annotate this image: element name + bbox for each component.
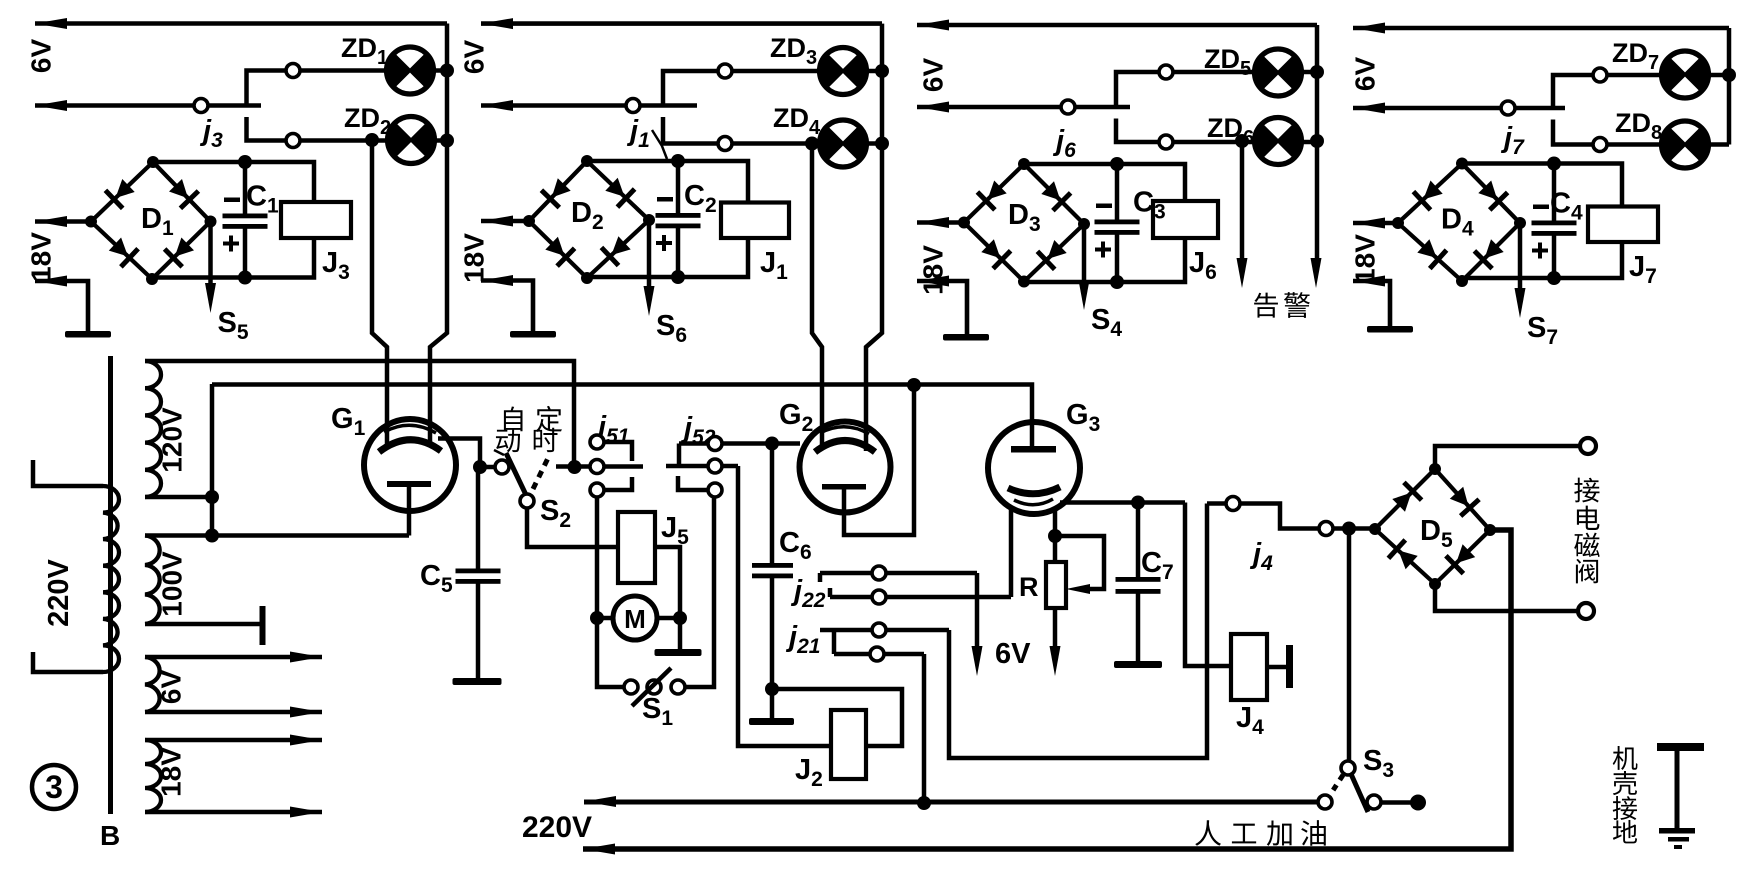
capacitor C1 plates: [223, 214, 268, 229]
svg-text:M: M: [624, 604, 646, 634]
label solenoid valve 接电磁阀: [1574, 478, 1599, 503]
ground C7: [1114, 661, 1162, 668]
wire right vertical from rail corner (block 1): [445, 24, 450, 141]
switch S3 pivot: [1341, 761, 1355, 775]
arrow S4 down (block 3): [1079, 280, 1090, 310]
arrow 6V return left (block 2): [481, 100, 513, 111]
contact circle lower throw (block 3): [1159, 135, 1173, 149]
capacitor C5 lead to ground: [476, 584, 481, 679]
wire primary top lead: [33, 460, 103, 486]
svg-text:6V: 6V: [1350, 57, 1381, 92]
wire branch to lamp ZD5 (block 3): [1116, 72, 1255, 107]
junction capacitor bottom (block 2): [671, 270, 685, 284]
bridge rectifier D3: [958, 158, 1090, 288]
label manual refuel 人工加油: [1195, 820, 1221, 846]
arrow 18V left (block 4): [1353, 218, 1385, 229]
arrow 18V left (block 1): [35, 216, 67, 227]
wire 6V return / contact feed (block 2): [481, 103, 697, 108]
wire S4 sense lead from bridge AC (block 3): [1082, 224, 1087, 284]
rheostat R body: [1046, 562, 1066, 608]
ground C5: [453, 678, 502, 685]
label minus (block 2): [657, 197, 673, 202]
junction C7 top node: [1131, 496, 1145, 510]
wire 18V input (block 4): [1353, 221, 1398, 226]
label plus (block 1): [223, 236, 239, 252]
wire 6V supply rail (block 3): [917, 23, 1317, 28]
arrow 6V rail left (block 4): [1353, 23, 1385, 34]
wire 6V supply rail (block 1): [35, 21, 447, 26]
relay coil J2: [831, 710, 866, 779]
contact j21 lower row: [834, 652, 924, 657]
switch S3 left contact on rail: [1318, 795, 1332, 809]
wire 6V return / contact feed (block 4): [1353, 106, 1565, 111]
transformer B core: [108, 356, 113, 814]
wire branch to lamp ZD4 (block 2): [663, 117, 820, 144]
transformer secondary winding 120V: [145, 361, 161, 497]
arrow 6V output: [972, 646, 983, 676]
contact j51 lower throw: [597, 477, 632, 490]
wire bridge top to relay/capacitor node (block 2): [587, 161, 748, 203]
arrow alarm output right: [1311, 258, 1322, 288]
wire S1 right to j52 lower contact: [684, 497, 714, 687]
wire right vertical from rail corner (block 2): [880, 24, 885, 144]
contact j21 upper row: [820, 628, 949, 633]
arrow 18V return left (block 2): [481, 275, 513, 286]
wire G3 cathode left lead to j22: [1009, 508, 1014, 597]
wire lamp ZD3 to 6V rail corner (block 2): [867, 69, 883, 74]
capacitor C7 lead top: [1136, 503, 1141, 578]
wire 120V bottom lead: [145, 495, 212, 500]
wire branch to lamp ZD3 (block 2): [663, 71, 820, 106]
contact circle upper throw (block 1): [286, 64, 300, 78]
arrow S5 down (block 1): [205, 283, 216, 313]
tube G1 anode arcs: [384, 425, 436, 433]
wire 100V top lead to G1 cathode: [145, 533, 409, 538]
wire G3 bottom to R node: [1053, 508, 1058, 536]
svg-text:100V: 100V: [157, 551, 188, 617]
leader j1 contact: [652, 130, 667, 159]
wire bridge bottom to relay bottom (block 1): [152, 238, 314, 279]
bridge rectifier D5: [1369, 463, 1496, 590]
junction G2 grid / C6 top: [765, 437, 779, 451]
wire 18V return stub to ground (block 2): [481, 281, 533, 332]
junction block3 corner at ZD6 line: [1310, 134, 1324, 148]
ground bar (block 2): [510, 331, 556, 338]
arrow 220V live left: [584, 796, 616, 807]
wire 18V return stub to ground (block 3): [917, 281, 967, 334]
wire 18V return stub to ground (block 1): [35, 281, 88, 331]
svg-text:18V: 18V: [459, 233, 490, 283]
contact circle lower throw (block 4): [1593, 138, 1607, 152]
junction G1 grid / C5 node: [473, 460, 487, 474]
contact j52 upper row to G2 grid: [679, 441, 772, 446]
junction R top: [1048, 529, 1062, 543]
svg-text:18V: 18V: [156, 747, 187, 797]
contact j51 circle on line: [590, 460, 604, 474]
contact j4 circle left: [1226, 497, 1240, 511]
svg-text:3: 3: [45, 769, 63, 805]
svg-text:120V: 120V: [157, 407, 188, 473]
wire 6V supply rail (block 2): [481, 21, 882, 26]
switch S2 pivot: [520, 494, 534, 508]
arrow R wiper: [1066, 584, 1090, 594]
wire 6V winding top lead: [145, 655, 322, 660]
wire branch to lamp ZD6 (block 3): [1116, 119, 1255, 143]
label plus (block 2): [656, 235, 672, 251]
label plus (block 3): [1095, 242, 1111, 258]
label chassis ground 机壳接地: [1613, 746, 1638, 770]
ground bar (block 1): [65, 331, 111, 338]
junction block1 corner at ZD2 line: [440, 134, 454, 148]
wire motor left lead: [597, 616, 613, 621]
label plus (block 4): [1532, 243, 1548, 259]
wire lamp ZD4 right (block 2): [867, 141, 883, 146]
svg-text:B: B: [100, 820, 120, 851]
wire 120V top lead to timing node: [145, 361, 574, 467]
svg-text:6V: 6V: [26, 39, 57, 74]
wire R top lead: [1053, 536, 1058, 562]
arrow 6V rail left (block 2): [481, 18, 513, 29]
junction right vertical at lamp ZD1 (block 1): [440, 64, 454, 78]
capacitor C4 lead bottom: [1552, 236, 1557, 279]
wire 6V return / contact feed (block 3): [917, 105, 1130, 110]
arrow 6V rail left (block 3): [917, 20, 949, 31]
arrow 18V bottom: [290, 807, 322, 818]
capacitor C7 plates: [1116, 577, 1161, 594]
arrow R 6V output: [1050, 646, 1061, 676]
wire C6 bottom to ground: [770, 689, 775, 718]
wire branch to lamp ZD1 (block 1): [247, 71, 387, 106]
chassis bar J4 return: [1286, 645, 1293, 688]
junction capacitor bottom (block 3): [1110, 275, 1124, 289]
relay coil J3: [281, 202, 351, 238]
relay coil J7: [1588, 207, 1658, 243]
arrow S6 down (block 2): [644, 286, 655, 316]
contact circle lower throw (block 2): [718, 137, 732, 151]
wire J5 right to motor node: [655, 547, 680, 612]
label minus (block 1): [224, 198, 240, 203]
bracket j21 common: [832, 630, 837, 654]
contact circle upper throw (block 3): [1159, 65, 1173, 79]
arrow 18V left (block 2): [481, 216, 513, 227]
wire bridge top to relay/capacitor node (block 4): [1462, 164, 1622, 207]
label mode auto 自动: [504, 407, 523, 432]
wire j22 upper to 6V output: [975, 573, 980, 649]
ground C6: [749, 718, 794, 725]
wire G1 grid to S2: [438, 439, 502, 468]
wire lamp ZD2 right (block 1): [435, 138, 448, 143]
wire D5 right vertex to 220V return rail: [583, 530, 1511, 849]
wire 18V winding top lead: [145, 738, 322, 743]
tube G1 cathode bar: [387, 481, 431, 487]
switch S3 blade solid: [1351, 774, 1368, 812]
capacitor C4 plates: [1532, 221, 1577, 236]
switch S2 blade solid (auto): [506, 453, 527, 497]
arrow S7 down (block 4): [1515, 288, 1526, 318]
wire branch to lamp ZD2 (block 1): [247, 117, 388, 141]
junction C6 bottom: [765, 682, 779, 696]
wire bridge top to relay/capacitor node (block 3): [1024, 164, 1185, 201]
bracket j52 common: [677, 444, 682, 465]
indicator lamp ZD6: [1254, 118, 1301, 165]
junction capacitor bottom (block 4): [1547, 271, 1561, 285]
label mode timed 定时: [536, 406, 562, 432]
terminal solenoid valve +: [1580, 438, 1596, 454]
capacitor C1 lead top: [243, 162, 248, 214]
capacitor C2 plates: [656, 213, 701, 228]
junction right vertical at lamp ZD3 (block 2): [875, 64, 889, 78]
capacitor C2 lead top: [676, 161, 681, 213]
svg-text:R: R: [1019, 572, 1039, 602]
svg-text:18V: 18V: [918, 245, 949, 295]
wire 18V input (block 3): [917, 220, 964, 225]
arrow 6V return left (block 4): [1353, 103, 1385, 114]
capacitor C1 lead bottom: [243, 229, 248, 278]
contact circle upper throw (block 2): [718, 64, 732, 78]
wire C6 bottom node to J2 right side: [772, 689, 902, 746]
wire branch to lamp ZD7 (block 4): [1553, 75, 1662, 108]
svg-text:6V: 6V: [995, 638, 1031, 670]
wire 220V live rail: [584, 800, 1318, 805]
capacitor C7 lead bottom: [1136, 594, 1141, 662]
capacitor C4 lead top: [1552, 164, 1557, 221]
capacitor C5 lead: [476, 467, 481, 569]
chassis bar 100V return: [260, 606, 266, 645]
wire node to D5 left vertex: [1349, 526, 1375, 531]
ground bar (block 4): [1367, 326, 1413, 333]
wire bridge bottom to relay bottom (block 4): [1462, 242, 1622, 281]
arrow 18V return left (block 4): [1353, 276, 1385, 287]
tube G3 anode bar: [1011, 446, 1056, 453]
junction 220V rail: [917, 796, 931, 810]
transformer primary winding 220V: [103, 486, 119, 672]
tube G2 envelope: [800, 422, 891, 513]
svg-text:6V: 6V: [459, 40, 490, 75]
wire bridge bottom to relay bottom (block 3): [1024, 238, 1185, 282]
wire lamp ZD7 to 6V rail corner (block 4): [1709, 73, 1730, 78]
junction right vertical at lamp ZD7 (block 4): [1722, 68, 1736, 82]
wire tap riser to anode supply line: [210, 384, 215, 536]
arrow 18V return left (block 3): [917, 276, 949, 287]
wire ZD2 junction down to tube G1 left entry: [372, 140, 387, 449]
junction ZD4 line to G2 anode wire: [805, 137, 819, 151]
indicator lamp ZD8: [1661, 121, 1708, 168]
indicator lamp ZD3: [820, 48, 867, 95]
switch S1 blade: [632, 668, 671, 706]
junction capacitor bottom (block 1): [238, 271, 252, 285]
indicator lamp ZD2: [388, 117, 435, 164]
wire C7 node to J4 coil: [1185, 503, 1231, 667]
ground motor: [655, 649, 702, 656]
wire D5 top output: [1435, 446, 1580, 469]
junction timing node: [568, 460, 582, 474]
junction capacitor top (block 2): [671, 154, 685, 168]
svg-text:18V: 18V: [26, 232, 57, 282]
relay coil J4: [1231, 634, 1267, 700]
leader auto mode: [494, 450, 504, 455]
contact j4 feed line: [1207, 504, 1349, 529]
junction capacitor top (block 3): [1110, 157, 1124, 171]
tube G2 anode arcs: [820, 427, 869, 434]
arrow 6V return left (block 3): [917, 102, 949, 113]
junction right vertical at lamp ZD5 (block 3): [1310, 65, 1324, 79]
relay coil J5: [618, 512, 655, 583]
wire bridge top to relay/capacitor node (block 1): [153, 162, 314, 202]
tube G3 cathode arcs: [1008, 487, 1060, 494]
transformer secondary winding 100V: [145, 536, 160, 625]
wire lamp ZD1 to 6V rail corner (block 1): [434, 68, 448, 73]
wire j21 lower to 220V rail: [922, 654, 927, 803]
switch S2 left contact: [495, 460, 509, 474]
capacitor C3 lead top: [1115, 164, 1120, 220]
transformer secondary winding 18V: [145, 740, 161, 812]
indicator lamp ZD4: [820, 120, 867, 167]
svg-text:220V: 220V: [43, 558, 75, 626]
junction 100V tap: [205, 529, 219, 543]
relay coil J1: [721, 203, 789, 239]
arrow alarm output left: [1237, 258, 1248, 288]
contact j51 upper throw: [597, 442, 632, 461]
capacitor C6 plates: [752, 563, 793, 578]
wire 18V input (block 1): [35, 219, 91, 224]
switch S3 blade dashed: [1328, 775, 1343, 798]
wire J4 right lead: [1267, 665, 1286, 670]
terminal S3 right: [1410, 795, 1426, 811]
arrow 18V return left (block 1): [35, 276, 67, 287]
wire S3 right stub: [1381, 800, 1415, 805]
wire bridge bottom to relay bottom (block 2): [587, 238, 748, 278]
wire G3 output right: [1060, 500, 1185, 505]
capacitor C5 plates: [456, 569, 501, 584]
wire block2 corner down to tube G2 right entry: [866, 144, 882, 452]
relay contact j6 circle on feed wire (block 3): [1061, 100, 1075, 114]
label minus (block 3): [1096, 204, 1112, 209]
arrow 18V left (block 3): [917, 217, 949, 228]
wire j52 middle down to relay J2: [738, 466, 831, 746]
svg-text:220V: 220V: [522, 811, 592, 844]
arrow 6V rail left (block 1): [35, 18, 67, 29]
junction motor left: [590, 611, 604, 625]
wire j21 upper to j4 feed: [949, 504, 1207, 759]
label alarm 告警: [1254, 293, 1278, 318]
switch S2 blade dashed (timed): [533, 454, 550, 489]
transformer secondary winding 6V: [145, 657, 160, 712]
tube G2 cathode bar: [822, 484, 866, 490]
contact circle upper throw (block 4): [1593, 68, 1607, 82]
capacitor C2 lead bottom: [676, 228, 681, 277]
bridge rectifier D2: [523, 155, 655, 284]
wire S2 pivot to relay J5 line: [527, 507, 618, 547]
wire lamp ZD6 right (block 3): [1302, 140, 1318, 145]
svg-text:6V: 6V: [918, 58, 949, 93]
wire 6V return / contact feed (block 1): [35, 103, 261, 108]
tube G3 envelope: [988, 422, 1080, 514]
wire anode supply line to G3: [212, 385, 1032, 448]
wire motor right lead: [657, 616, 680, 621]
junction motor right: [673, 611, 687, 625]
motor M: [613, 596, 657, 640]
wire branch to lamp ZD8 (block 4): [1553, 120, 1662, 145]
wire R bottom to 6V output: [1053, 608, 1058, 649]
relay contact j1 circle on feed wire (block 2): [626, 99, 640, 113]
wire alarm output from block3 corner: [1315, 141, 1320, 262]
wire 18V winding bottom lead: [145, 810, 322, 815]
switch S1 left contact: [624, 680, 638, 694]
wire 6V winding bottom lead: [145, 710, 322, 715]
relay contact j7 circle on feed wire (block 4): [1501, 101, 1515, 115]
wire block1 corner down to tube G1 right entry: [430, 141, 447, 445]
chassis ground symbol: [1657, 743, 1704, 751]
junction capacitor top (block 4): [1547, 157, 1561, 171]
wire R wiper loop: [1055, 536, 1104, 589]
relay contact j3 circle on feed wire (block 1): [194, 99, 208, 113]
capacitor C3 plates: [1095, 220, 1140, 235]
wire S2 node to j51 contact line: [556, 464, 643, 469]
arrow 220V return left: [583, 844, 615, 855]
wire S5 sense lead from bridge AC (block 1): [208, 222, 213, 288]
contact j22 upper row: [818, 573, 823, 582]
wire S7 sense lead from bridge AC (block 4): [1518, 223, 1523, 292]
tube G1 envelope: [364, 419, 456, 511]
svg-text:6V: 6V: [156, 670, 187, 705]
terminal solenoid valve -: [1578, 603, 1594, 619]
wire alarm output from ZD6 junction: [1240, 141, 1245, 262]
switch S1 right contact: [671, 680, 685, 694]
contact circle lower throw (block 1): [286, 134, 300, 148]
capacitor C6 lead lower: [770, 578, 775, 690]
wire 18V input (block 2): [481, 219, 529, 224]
wire primary bottom lead: [33, 652, 103, 672]
wire G2 cathode return to supply line: [844, 385, 914, 535]
junction block2 corner at ZD4 line: [875, 137, 889, 151]
indicator lamp ZD1: [387, 47, 434, 94]
junction G2 cathode return: [907, 378, 921, 392]
wire right vertical from rail corner (block 4): [1727, 28, 1732, 145]
wire S6 sense lead from bridge AC (block 2): [647, 220, 652, 290]
wire ZD4 junction down to tube G2 left entry: [812, 144, 822, 451]
contact j22 lower row: [828, 588, 833, 597]
arrow 18V top: [290, 735, 322, 746]
bridge rectifier D4: [1392, 158, 1526, 288]
wire C6 node to G2 grid: [772, 441, 800, 446]
junction capacitor top (block 1): [238, 155, 252, 169]
wire 18V return stub to ground (block 4): [1353, 281, 1390, 326]
relay coil J6: [1153, 201, 1218, 238]
junction j4 to D5 node: [1342, 522, 1356, 536]
arrow 6V top: [290, 652, 322, 663]
wire G1 cathode down to 100V lead: [407, 487, 412, 536]
wire 6V supply rail (block 4): [1353, 26, 1729, 31]
wire lamp ZD5 to 6V rail corner (block 3): [1302, 70, 1318, 75]
indicator lamp ZD7: [1661, 51, 1708, 98]
capacitor C6 lead from grid node: [770, 444, 775, 564]
switch S1 moving contact: [647, 680, 661, 694]
wire lamp ZD8 right (block 4): [1709, 142, 1730, 147]
arrow 6V return left (block 1): [35, 100, 67, 111]
wire S3 common from D5 node: [1347, 529, 1352, 762]
switch S3 right contact: [1367, 795, 1381, 809]
wire j51 lower contact down to S1 rail: [597, 496, 631, 687]
contact j52 middle row: [666, 464, 738, 469]
arrow 6V bottom: [290, 707, 322, 718]
contact j4 circle right: [1319, 522, 1333, 536]
wire right vertical from rail corner (block 3): [1315, 25, 1320, 142]
wire motor right to ground: [678, 618, 683, 649]
label minus (block 4): [1533, 205, 1549, 210]
junction ZD2 line to G1 anode wire: [365, 133, 379, 147]
contact j52 lower row: [678, 476, 709, 490]
bridge rectifier D1: [85, 156, 217, 285]
